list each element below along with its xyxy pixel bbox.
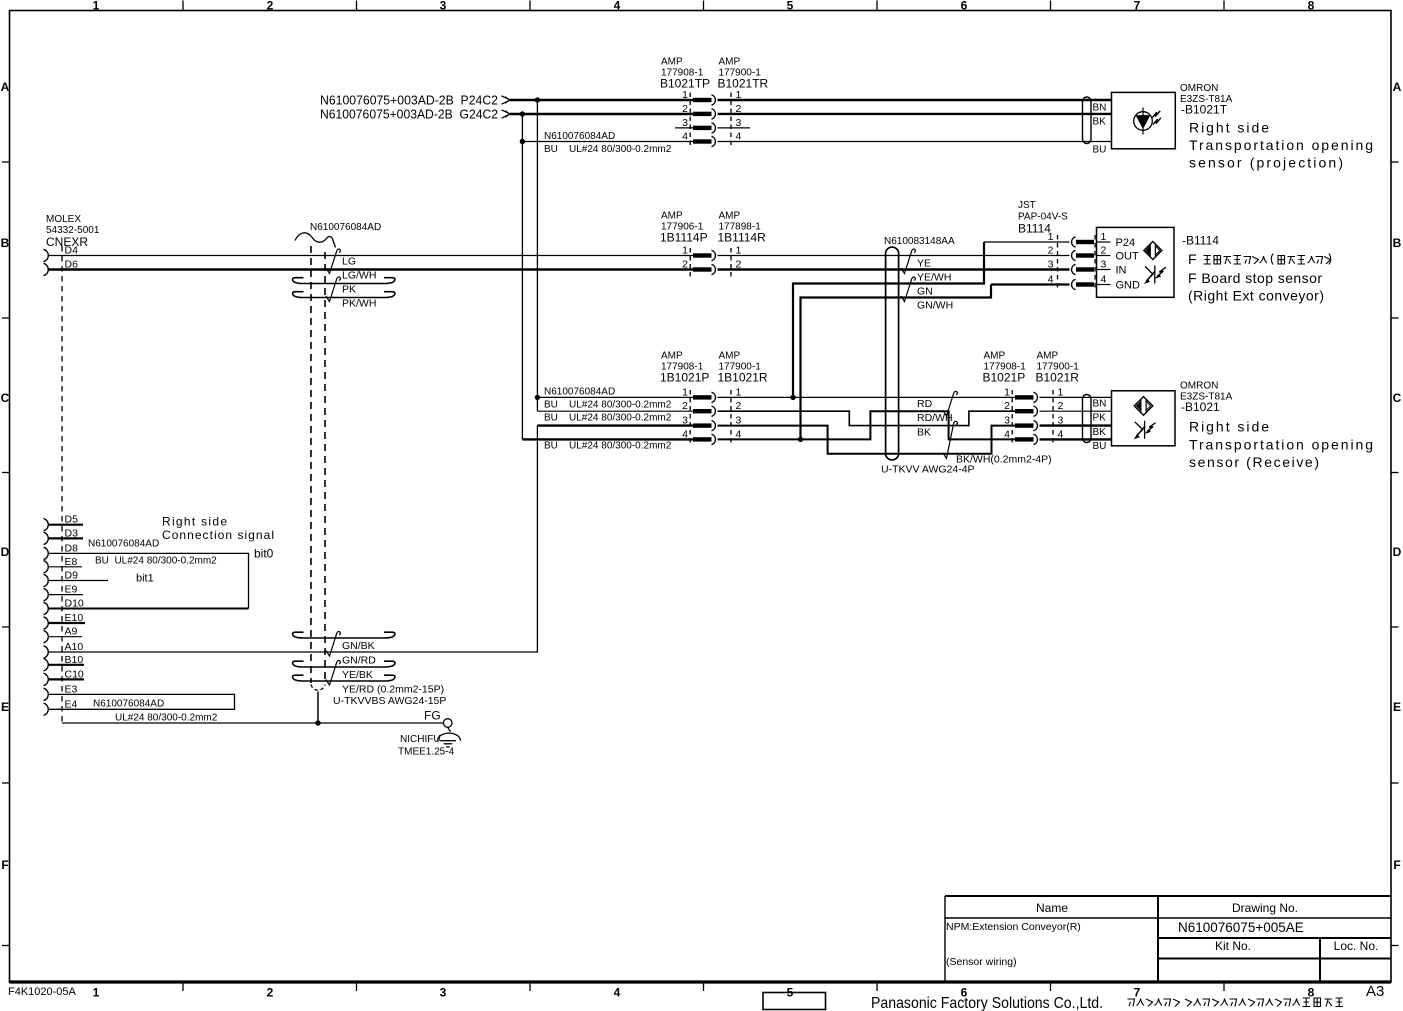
pin D9 [44,574,109,586]
svg-text:N610076075+003AD-2B G24C2: N610076075+003AD-2B G24C2 [320,107,498,122]
sensor B1114 diamond symbol [1144,242,1162,260]
svg-text:IN: IN [1116,265,1127,277]
twist marker LG pair [326,249,341,274]
sensor B1114 pin names [1116,237,1141,292]
svg-text:1B1114P: 1B1114P [660,231,708,245]
pin label D4 [65,245,79,257]
svg-text:YE/BK: YE/BK [342,669,373,681]
svg-text:D4: D4 [65,245,79,257]
wire label RD [917,398,933,410]
wire BN to sensor B1021T [718,99,1112,101]
svg-text:1B1021P: 1B1021P [660,371,709,385]
svg-text:Drawing No.: Drawing No. [1232,901,1298,915]
pin C10 [44,673,85,685]
pin label A10 [65,641,84,653]
wire 1B1021P pin4 [522,438,693,440]
wire 1B1021P pin1 [537,396,693,398]
pin label A9 [65,626,78,638]
svg-text:D5: D5 [65,514,79,526]
wire YE to B1114 pin2 [718,255,1070,257]
svg-text:AMP: AMP [1037,351,1059,362]
svg-text:LG: LG [342,256,356,268]
connector 1B1114R boundary dashed [730,248,732,277]
svg-text:3: 3 [440,986,447,1000]
connector 1B1114R labels [718,211,767,245]
wire P24 vertical drop to 1B1021P [536,100,538,411]
svg-text:D: D [1393,545,1402,559]
svg-text:8: 8 [1308,986,1315,1000]
svg-text:N610076084AD: N610076084AD [88,539,159,550]
wire color labels sensor B1021 [1093,399,1107,453]
connector B1021TP boundary dashed [689,93,691,148]
svg-text:UL#24 80/300-0.2mm2: UL#24 80/300-0.2mm2 [115,713,218,724]
pin E3 [44,688,49,700]
svg-text:2: 2 [1048,245,1054,257]
svg-text:Kit No.: Kit No. [1215,939,1251,953]
svg-text:2: 2 [1058,400,1064,412]
svg-text:Transportation opening: Transportation opening [1189,437,1373,453]
svg-text:-B1021: -B1021 [1181,400,1220,414]
wire G24C2 to B1021TP pin2 [510,113,693,115]
svg-text:BK: BK [917,427,931,439]
wire label LG [342,256,356,268]
svg-text:GN/RD: GN/RD [342,655,376,667]
revision box [763,993,826,1010]
connector 1B1114P labels [660,211,708,245]
svg-text:4: 4 [736,131,742,143]
svg-text:N610076075+005AE: N610076075+005AE [1178,920,1304,935]
pin label D8 [65,542,79,554]
pin A9 [44,631,83,643]
twist marker YE pair [901,249,916,274]
wire B1114 pin1 horizontal [984,241,1070,243]
pin numbers 1B1021P [682,386,688,440]
svg-text:8: 8 [1308,0,1315,13]
wire label GN/BK [342,640,375,652]
twist marker RD pair [943,391,958,416]
svg-text:OUT: OUT [1116,251,1140,263]
pin label D5 [65,514,79,526]
node P24C2 source label [320,93,498,108]
jumper wire D10 return [48,608,249,610]
sensor B1114 description [1188,270,1324,304]
svg-text:BU: BU [1093,145,1107,156]
svg-text:3: 3 [682,117,688,129]
sensor B1114 pin numbers [1101,231,1107,286]
junction BU wire row A [520,139,525,144]
svg-text:sensor (Receive): sensor (Receive) [1189,454,1319,470]
ground terminal FG [438,719,461,747]
connector B1021R boundary dashed [1052,390,1054,446]
svg-text:C10: C10 [65,668,84,680]
pin label E10 [65,612,84,624]
connector B1021TP/TR pins [693,95,715,105]
svg-text:GN/BK: GN/BK [342,640,375,652]
svg-text:3: 3 [682,415,688,427]
svg-text:YE/RD (0.2mm2-15P): YE/RD (0.2mm2-15P) [342,684,444,696]
svg-text:1: 1 [1048,231,1054,243]
pin label C10 [65,668,84,680]
junction GN on RD net [790,395,795,400]
wire BK to sensor B1021 [1040,424,1112,426]
svg-text:2: 2 [682,259,688,271]
twist marker BK pair [943,421,958,458]
pin E4 [44,703,49,715]
connector B1021P boundary dashed [1011,390,1013,446]
connector B1114 labels [1018,200,1068,236]
jumper wire D8 to D10 [48,553,249,608]
svg-text:BU: BU [1093,441,1107,452]
svg-text:2: 2 [1101,245,1107,257]
cable N610076084AD 15P label [310,222,381,233]
wire YE/WH to B1114 pin3 [718,268,1070,270]
wire GN/WH from B1114 pin4 [801,285,992,440]
svg-text:N610076075+003AD-2B P24C2: N610076075+003AD-2B P24C2 [320,93,498,108]
wire B1114 pin4 horizontal [991,283,1070,285]
pin label D9 [65,570,79,582]
wire color labels sensor B1021T [1093,103,1107,156]
cable 15P sheath dashed left [310,246,312,683]
svg-text:D8: D8 [65,542,79,554]
wire RD/WH net pin4 to pin4 [718,411,1016,439]
wire label BK/WH [956,454,1052,466]
svg-text:(Sensor wiring): (Sensor wiring) [946,956,1017,968]
wire 1B1021P pin3 [537,424,693,426]
svg-text:BU UL#24 80/300-0.2mm2: BU UL#24 80/300-0.2mm2 [544,441,672,452]
svg-text:E9: E9 [65,584,78,596]
svg-text:3: 3 [736,117,742,129]
pin B10 [44,659,85,671]
cable 15P sheath wave [295,233,336,248]
svg-text:E: E [1,700,9,714]
svg-text:A3: A3 [1366,983,1384,1000]
title block texts [8,901,1384,1011]
connector B1021TR boundary dashed [730,93,732,148]
wire B1021TP pin3 stub [675,127,693,129]
pin label E8 [65,556,78,568]
cable label U-TKVVBS AWG24-15P [333,695,446,707]
svg-text:(Right Ext conveyor): (Right Ext conveyor) [1188,288,1324,304]
wire label RD/WH [917,412,953,424]
svg-text:OMRON: OMRON [1180,83,1218,94]
svg-text:F4K1020-05A: F4K1020-05A [8,986,77,998]
svg-text:F: F [1,858,8,872]
sensor B1114 japanese note [1188,251,1197,267]
svg-text:YE/WH: YE/WH [917,272,951,284]
svg-text:1: 1 [1004,386,1010,398]
svg-text:3: 3 [1101,259,1107,271]
wire BK/WH net pin3 to pin3 [718,426,1016,454]
svg-text:1: 1 [736,245,742,257]
svg-text:B1021P: B1021P [983,371,1026,385]
junction P24C2 [535,97,540,102]
cable label N610076084AD row A [544,131,672,155]
svg-text:B1021TR: B1021TR [718,77,769,91]
pin D10 [44,602,49,614]
svg-text:D9: D9 [65,570,79,582]
svg-text:4: 4 [614,0,621,13]
cable clamp sensor B1021 [1083,395,1092,443]
svg-text:B: B [1,236,10,250]
node label bit0 [254,547,274,561]
svg-text:A: A [1,80,10,94]
junction G24C2 [520,111,525,116]
wire label LG/WH [342,270,376,282]
connector B1021R labels [1036,351,1080,385]
svg-text:1: 1 [682,245,688,257]
svg-text:NICHIFU: NICHIFU [400,734,441,745]
connector CNEXR boundary dashed [61,246,63,723]
svg-text:2: 2 [267,0,274,13]
pin label B10 [65,654,84,666]
footer japanese company name [1128,998,1344,1007]
svg-text:1: 1 [736,386,742,398]
pin numbers 1B1114P [682,245,688,271]
svg-text:JST: JST [1018,200,1036,211]
pin D5 [44,519,84,531]
unused wire PK [293,278,395,284]
node label bit1 [136,573,154,585]
svg-text:A: A [1393,80,1402,94]
svg-text:BK: BK [1093,427,1107,438]
wire P24C2 to B1021TP pin1 [510,99,693,101]
svg-text:1: 1 [93,986,100,1000]
wire FG [62,722,443,724]
svg-text:1: 1 [1058,386,1064,398]
svg-text:LG/WH: LG/WH [342,270,376,282]
sensor B1114 receiver symbol [1145,266,1166,284]
node G24C2 arrow [502,110,511,118]
node label FG [424,709,441,723]
wire label BK [917,427,931,439]
svg-text:2: 2 [682,400,688,412]
connector 1B1114P/R pins [693,250,715,260]
svg-text:A9: A9 [65,626,78,638]
sensor B1114 boundary dashed [1094,235,1096,291]
pin numbers B1021TP [682,89,688,143]
svg-text:Right side: Right side [162,515,227,529]
unused wire YE/BK [293,661,395,667]
svg-text:4: 4 [1048,274,1054,286]
pin D3 [44,532,84,544]
wire BK to sensor B1021T [718,113,1112,115]
svg-text:-B1021T: -B1021T [1181,103,1228,117]
wire label PK/WH [342,298,376,310]
svg-text:1: 1 [1101,231,1107,243]
svg-text:4: 4 [1004,428,1010,440]
connector CNEXR labels [46,214,100,249]
svg-text:N610076084AD: N610076084AD [93,699,164,710]
pin label E9 [65,584,78,596]
wire label YE/RD [342,684,444,696]
svg-text:F: F [1393,858,1400,872]
sensor B1021 description [1189,419,1373,471]
title block [945,896,1391,982]
svg-text:FG: FG [424,709,441,723]
pin label E3 [65,683,78,695]
signal description Right side Connection signal [162,515,274,543]
cable label U-TKVV AWG24-4P [881,464,975,476]
wire PK to sensor B1021 [1040,410,1112,412]
svg-text:1: 1 [682,386,688,398]
sensor B1021 diamond symbol [1134,397,1153,416]
svg-text:U-TKVV AWG24-4P: U-TKVV AWG24-4P [881,464,975,476]
pin numbers 1B1021R [736,386,742,440]
connector B1021P/R pins [1015,392,1037,402]
svg-text:2: 2 [682,103,688,115]
svg-text:N610076084AD: N610076084AD [544,387,615,398]
jumper wire E3 to E4 [48,694,235,709]
svg-text:E4: E4 [65,698,78,710]
pin numbers B1021P [1004,386,1010,440]
cable 15P shield drain [317,692,319,724]
svg-text:E8: E8 [65,556,78,568]
svg-text:BN: BN [1093,103,1107,114]
sensor B1021T labels [1180,83,1233,117]
svg-text:BU UL#24 80/300-0.2mm2: BU UL#24 80/300-0.2mm2 [95,556,217,567]
wire label GN/WH [917,300,953,312]
svg-text:NPM:Extension Conveyor(R): NPM:Extension Conveyor(R) [946,921,1081,933]
svg-text:BN: BN [1093,399,1107,410]
pin E10 [44,617,86,629]
svg-text:2: 2 [267,986,274,1000]
svg-text:AMP: AMP [661,57,683,68]
svg-text:AMP: AMP [719,211,741,222]
wire D4 to 1B1114P pin1 [48,255,693,257]
svg-text:AMP: AMP [661,211,683,222]
svg-text:TMEE1.25-4: TMEE1.25-4 [398,747,455,758]
svg-text:B: B [1393,236,1402,250]
svg-text:N610083148AA: N610083148AA [884,236,955,247]
svg-text:Name: Name [1036,901,1068,915]
pin numbers B1021R [1058,386,1064,440]
svg-text:AMP: AMP [661,351,683,362]
svg-text:Loc. No.: Loc. No. [1334,939,1379,953]
wire label YE/WH [917,272,951,284]
pin D4 [44,249,49,261]
junction P24 at 1B1021P pin1 [535,395,540,400]
svg-text:bit1: bit1 [136,573,154,585]
svg-text:7: 7 [1134,0,1141,13]
svg-text:6: 6 [961,0,968,13]
svg-text:E10: E10 [65,612,84,624]
wire BU to sensor B1021 [1040,438,1112,440]
pin numbers 1B1114R [736,245,742,271]
svg-text:N610076084AD: N610076084AD [310,222,381,233]
svg-text:BU UL#24 80/300-0.2mm2: BU UL#24 80/300-0.2mm2 [544,400,672,411]
wire BK net pin2 to pin2 [718,411,1016,425]
pin numbers B1021TR [736,89,742,143]
pin numbers B1114 connector [1048,231,1054,286]
wire label YE/BK [342,669,373,681]
svg-text:GN: GN [917,286,933,298]
wire label YE [917,258,931,270]
svg-text:N610076084AD: N610076084AD [544,131,615,142]
sensor B1021T description [1189,120,1373,171]
wire label GN [917,286,933,298]
wire G24 vertical drop to 1B1021P pin4 [521,114,523,439]
pin label E4 [65,698,78,710]
svg-text:MOLEX: MOLEX [46,214,81,225]
svg-text:OMRON: OMRON [1180,381,1218,392]
connector 1B1021R boundary dashed [730,390,732,446]
twist marker GN pair [901,277,916,302]
junction shield to FG [315,720,320,725]
svg-text:B1021R: B1021R [1036,371,1080,385]
svg-text:1: 1 [682,89,688,101]
pin label D10 [65,598,84,610]
svg-text:Panasonic Factory Solutions Co: Panasonic Factory Solutions Co.,Ltd. [871,995,1103,1011]
svg-text:Right side: Right side [1189,419,1269,435]
cable clamp sensor B1021T [1083,97,1092,144]
svg-text:AMP: AMP [719,57,741,68]
svg-text:AMP: AMP [984,351,1006,362]
cable label N610076084AD row C [544,387,672,452]
svg-text:AMP: AMP [719,351,741,362]
svg-text:-B1114: -B1114 [1182,234,1219,248]
connector 1B1021P labels [660,351,709,385]
cable 15P sheath dashed right [324,252,326,683]
sensor B1021 receiver symbol [1135,421,1156,439]
svg-text:3: 3 [1004,415,1010,427]
svg-text:U-TKVVBS AWG24-15P: U-TKVVBS AWG24-15P [333,695,446,707]
svg-text:1B1114R: 1B1114R [718,231,767,245]
wire RD net pin1 to pin1 [718,396,1016,398]
svg-text:Transportation opening: Transportation opening [1189,137,1373,153]
svg-text:2: 2 [1004,400,1010,412]
unused wire PK/WH [293,292,395,298]
svg-text:Right side: Right side [1189,120,1269,136]
unused wire GN/BK [293,632,395,638]
pin label D6 [65,259,79,271]
connector 1B1021P/R pins [693,392,715,402]
connector B1114 pins [1072,237,1094,247]
wire B1021TR pin3 stub [718,127,751,129]
svg-text:GND: GND [1116,280,1141,292]
svg-text:YE: YE [917,258,931,270]
svg-text:RD/WH: RD/WH [917,412,953,424]
svg-text:BU UL#24 80/300-0.2mm2: BU UL#24 80/300-0.2mm2 [544,413,672,424]
wire A10 signal drop [48,426,537,652]
svg-text:E: E [1393,700,1401,714]
svg-text:sensor (projection): sensor (projection) [1189,155,1343,171]
wire label GN/RD [342,655,376,667]
svg-text:4: 4 [1101,274,1107,286]
svg-text:7: 7 [1134,986,1141,1000]
cable 15P sheath end cap [311,685,325,691]
sensor B1021T box [1112,92,1176,148]
svg-text:BK: BK [1093,117,1107,128]
node G24C2 source label [320,107,498,122]
pin D6 [44,263,49,275]
svg-text:B10: B10 [65,654,84,666]
svg-text:PK: PK [342,284,356,296]
connector B1021P labels [983,351,1027,385]
cable 4P sheath [886,247,899,460]
twist marker PK pair [326,277,341,302]
node P24C2 arrow [502,96,511,104]
junction GN/WH on RD/WH net [798,437,803,442]
pin label D3 [65,527,79,539]
wire D6 to 1B1114P pin2 [48,268,693,270]
svg-text:5: 5 [787,0,794,13]
sensor B1114 pin stubs [1097,242,1111,285]
svg-text:E3: E3 [65,683,78,695]
svg-text:PK/WH: PK/WH [342,298,376,310]
svg-text:4: 4 [614,986,621,1000]
sensor B1114 labels [1182,234,1219,248]
wire BN to sensor B1021 [1040,396,1112,398]
